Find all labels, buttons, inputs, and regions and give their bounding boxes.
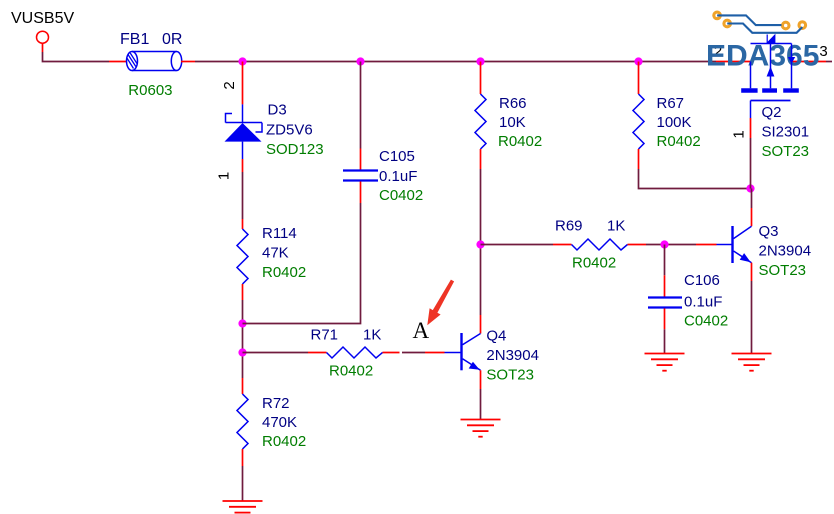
junction C105 return [238, 319, 246, 327]
svg-text:SI2301: SI2301 [762, 124, 810, 141]
wire D3 to R114 [242, 172, 244, 219]
wire Q2 gate to junction [750, 138, 752, 189]
wire node A from junction [243, 352, 309, 354]
annotation red arrow [427, 280, 454, 326]
wire Q4 emitter to ground [480, 389, 482, 420]
svg-text:R67: R67 [657, 95, 685, 112]
pin R66.1 [480, 62, 482, 95]
svg-text:D3: D3 [268, 102, 287, 119]
pin R114.1 [242, 219, 244, 229]
svg-text:1K: 1K [363, 327, 381, 344]
pin Q3 emitter [751, 263, 753, 281]
wire R67 to Q2 gate [639, 169, 751, 189]
pin Q3 base red [696, 244, 717, 246]
junction R69 branch [476, 240, 484, 248]
resistor R66 [475, 94, 486, 149]
pin FB1.2 [181, 61, 195, 63]
wire C105 to node [243, 203, 361, 324]
svg-text:C106: C106 [684, 272, 720, 289]
wire R72 to ground [242, 466, 244, 501]
junction bus/D3 [238, 57, 246, 65]
pin R69.2 [628, 244, 647, 246]
svg-text:R0402: R0402 [657, 133, 701, 150]
mosfet Q2 [741, 34, 799, 118]
svg-text:R0402: R0402 [329, 363, 373, 380]
svg-text:EDA365: EDA365 [706, 40, 819, 73]
transistor Q4 [445, 333, 481, 370]
capacitor C106 [648, 298, 682, 308]
wire junction to R69 [481, 244, 554, 246]
svg-text:0R: 0R [162, 31, 182, 48]
junction bus/C105 [356, 57, 364, 65]
wire C106 to ground [664, 329, 666, 353]
svg-text:R0402: R0402 [262, 264, 306, 281]
ground GND Q4 [461, 420, 501, 437]
wire R66 to Q4 collector [480, 169, 482, 315]
svg-text:FB1: FB1 [120, 31, 149, 48]
pin Q3 collector [751, 208, 753, 226]
zener diode D3 [225, 104, 263, 159]
svg-text:R0402: R0402 [572, 255, 616, 272]
resistor R69 [572, 239, 628, 250]
svg-text:SOT23: SOT23 [762, 143, 810, 160]
pin C106.2 [664, 309, 666, 330]
pin Q2 gate red [750, 118, 752, 138]
resistor R72 [237, 394, 248, 449]
svg-text:10K: 10K [499, 114, 526, 131]
pin R71.1 [308, 352, 327, 354]
pin R72.2 [242, 449, 244, 466]
resistor R114 [237, 229, 248, 284]
pin D3.2 [242, 62, 244, 105]
svg-text:VUSB5V: VUSB5V [11, 10, 74, 27]
wire right end [826, 61, 832, 63]
logo EDA365 trace 2 [727, 24, 802, 33]
svg-text:2: 2 [221, 81, 238, 89]
svg-text:Q2: Q2 [762, 104, 782, 121]
pin R69.1 [553, 244, 572, 246]
ground GND C106 [645, 354, 685, 371]
pin Q4 collector [480, 315, 482, 334]
svg-text:SOT23: SOT23 [759, 262, 807, 279]
svg-text:100K: 100K [657, 114, 692, 131]
svg-text:470K: 470K [262, 414, 297, 431]
svg-text:R114: R114 [262, 225, 297, 242]
pin R114.2 [242, 284, 244, 300]
pin C105.2 [360, 182, 362, 204]
wire Q3 emitter to ground [751, 281, 753, 354]
logo EDA365 trace 1 [717, 15, 781, 25]
logo EDA365 pad 3 [782, 22, 789, 29]
pin C105.1 [360, 149, 362, 171]
wire junction to C106 [664, 245, 666, 276]
pin R67.1 [638, 62, 640, 95]
wire R69 to Q3 base [646, 244, 696, 246]
svg-text:R69: R69 [555, 218, 583, 235]
svg-text:R66: R66 [499, 95, 527, 112]
svg-text:0.1uF: 0.1uF [684, 294, 722, 311]
pin Q4 emitter [480, 370, 482, 389]
wire junction to Q3 collector [751, 189, 753, 209]
svg-text:2N3904: 2N3904 [759, 243, 812, 260]
pin D3.1 [242, 159, 244, 172]
resistor R71 [327, 347, 383, 358]
ground GND Q3 [732, 354, 772, 371]
junction Q2 gate / Q3 collector [746, 184, 754, 192]
pin R71.2 [383, 352, 400, 354]
svg-text:R0603: R0603 [128, 82, 172, 99]
wire terminal stub [42, 43, 44, 52]
svg-text:Q4: Q4 [486, 328, 506, 345]
junction C106 branch [660, 240, 668, 248]
wire R114 to R72 [242, 300, 244, 378]
resistor R67 [633, 94, 644, 149]
wire node A segment [402, 352, 425, 354]
svg-text:R72: R72 [262, 395, 290, 412]
logo EDA365 pad 4 [799, 22, 806, 29]
svg-text:0.1uF: 0.1uF [379, 168, 417, 185]
logo EDA365 pad 2 [724, 20, 731, 27]
svg-text:1K: 1K [607, 218, 625, 235]
svg-text:2N3904: 2N3904 [486, 347, 539, 364]
pin FB1.1 [109, 61, 127, 63]
svg-text:C105: C105 [379, 148, 415, 165]
junction bus/R66 [476, 57, 484, 65]
svg-text:47K: 47K [262, 245, 289, 262]
pin Q2.3 wire [792, 61, 827, 63]
pin R72.1 [242, 378, 244, 394]
pin Q2.2 wire [716, 61, 751, 63]
svg-text:C0402: C0402 [379, 187, 423, 204]
svg-text:SOT23: SOT23 [486, 367, 534, 384]
wire bus to C105 [360, 62, 362, 149]
pin R66.2 [480, 149, 482, 169]
svg-text:R71: R71 [311, 327, 339, 344]
svg-text:C0402: C0402 [684, 313, 728, 330]
transistor Q3 [717, 226, 752, 263]
pin C106.1 [664, 275, 666, 297]
wire terminal to FB1 [43, 52, 110, 62]
svg-text:R0402: R0402 [262, 433, 306, 450]
junction node A branch [238, 348, 246, 356]
capacitor C105 [343, 171, 378, 181]
svg-text:ZD5V6: ZD5V6 [266, 122, 313, 139]
svg-text:R0402: R0402 [498, 133, 542, 150]
svg-text:SOD123: SOD123 [266, 141, 324, 158]
svg-text:3: 3 [819, 43, 827, 60]
junction bus/R67 [634, 57, 642, 65]
pin R67.2 [638, 149, 640, 169]
ferrite bead FB1 [127, 52, 182, 71]
logo EDA365 pad 1 [714, 12, 721, 19]
svg-text:1: 1 [216, 172, 233, 180]
pin Q4 base [425, 352, 445, 354]
svg-text:A: A [413, 318, 430, 343]
svg-text:Q3: Q3 [759, 223, 779, 240]
ground GND R72 [223, 501, 263, 514]
terminal VUSB5V [37, 31, 49, 43]
svg-text:1: 1 [731, 130, 748, 138]
wire top bus [195, 61, 716, 63]
